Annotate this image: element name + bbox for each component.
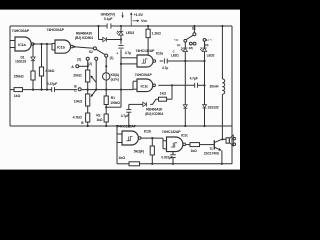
svg-text:(BJ) ICD504: (BJ) ICD504 (145, 112, 163, 116)
terminal B label lower (81, 121, 84, 125)
resistor R1 100k (104, 89, 120, 115)
svg-text:S1: S1 (192, 26, 196, 30)
svg-text:150kΩ: 150kΩ (14, 74, 24, 78)
wire feedback drop (171, 85, 173, 99)
schmitt nand gate IC2c (167, 133, 189, 151)
switch S2 arm (96, 49, 105, 54)
svg-text:1kΩ: 1kΩ (119, 156, 126, 160)
resistor 1k inline rail (14, 88, 23, 98)
svg-text:74HC00AP: 74HC00AP (135, 73, 153, 77)
capacitor 4.7uF vertical (116, 40, 131, 58)
svg-text:4.7kΩ: 4.7kΩ (73, 116, 82, 120)
terminal B C (74, 85, 81, 93)
led LED3 (117, 25, 135, 41)
wire emitter to rail (221, 150, 223, 165)
label 74HC00AP for IC1c (135, 73, 153, 77)
label 5kohm(F) (134, 149, 144, 153)
svg-text:1SS133: 1SS133 (207, 105, 218, 109)
resistor 4.7k (73, 113, 90, 127)
nand gate IC1c (137, 79, 155, 92)
wire reference rail y90 (10, 89, 133, 91)
schmitt nand gate IC2a (137, 52, 163, 67)
svg-text:1SS133: 1SS133 (15, 59, 26, 63)
svg-text:(±1%): (±1%) (111, 77, 119, 81)
svg-text:(BJ) ICD504: (BJ) ICD504 (75, 36, 93, 40)
svg-text:5kΩ(F): 5kΩ(F) (134, 149, 144, 153)
led LED1 (171, 42, 188, 61)
svg-text:T1: T1 (209, 147, 213, 151)
wire right frame border (231, 26, 233, 164)
ceramic resonator K5(A) (103, 73, 119, 96)
resistor 150k (14, 71, 36, 90)
capacitor 0.1uF label (104, 17, 114, 21)
capacitor 0.001uF (161, 152, 175, 165)
svg-text:GND(0V): GND(0V) (101, 13, 116, 17)
resistor R2 1k (96, 113, 108, 127)
wire coil to collector (221, 94, 223, 140)
svg-text:4.7μF: 4.7μF (190, 76, 198, 80)
svg-text:(M): (M) (189, 46, 193, 50)
svg-text:0.001μF: 0.001μF (161, 156, 173, 160)
label 74HC132AP for IC2c (162, 130, 182, 134)
wire contact3 column (87, 60, 89, 70)
svg-text:+1.5V: +1.5V (134, 13, 144, 17)
svg-text:IC1a: IC1a (18, 43, 27, 47)
svg-text:4.7μF: 4.7μF (121, 114, 129, 118)
label (BJ)ICD504 top (75, 36, 93, 40)
svg-text:B: B (81, 121, 84, 125)
wire IC1c output (158, 84, 173, 86)
svg-text:IC2b: IC2b (144, 129, 151, 133)
capacitor 4.7uF at IC2a output (160, 59, 169, 71)
switch S1 arm (186, 35, 193, 39)
resistor 1k feedback (159, 92, 173, 102)
wire IC1a output (33, 43, 52, 45)
svg-text:A: A (71, 65, 74, 69)
label 74HC132AP for IC2b (117, 125, 137, 129)
svg-text:(N): (N) (205, 43, 209, 47)
svg-text:RB466A30: RB466A30 (146, 108, 162, 112)
svg-text:1.2kΩ: 1.2kΩ (152, 32, 161, 36)
switch S2 contact (3) (77, 57, 89, 61)
wire IC1c input tie (133, 81, 137, 89)
resistor 1k at T1 base (190, 143, 214, 154)
wire bottom rail of lower section (117, 163, 232, 165)
svg-text:74HC132AP: 74HC132AP (136, 49, 156, 53)
wire IC2b output (141, 137, 163, 139)
label 74HC00AP for IC1b (47, 28, 65, 32)
wire IC2c output (186, 144, 190, 146)
resistor 5k pot column (150, 138, 154, 165)
wire R divider to IC2a input column (106, 90, 121, 108)
diode D1 1SS133 (15, 56, 35, 71)
svg-text:20kΩ: 20kΩ (73, 73, 82, 77)
svg-text:74HC00AP: 74HC00AP (12, 29, 30, 33)
wire left frame border (9, 26, 11, 126)
svg-text:S2: S2 (89, 50, 93, 54)
potentiometer 10k (74, 94, 90, 113)
switch S1 pole (192, 25, 196, 36)
switch S2 contact (1) (105, 54, 114, 60)
svg-text:1kΩ: 1kΩ (160, 92, 167, 96)
capacitor 0.47uF inline rail (47, 82, 57, 92)
svg-text:Vcc: Vcc (141, 19, 147, 23)
wire LED1 column with diode (183, 60, 187, 127)
svg-text:RB466A30: RB466A30 (76, 32, 92, 36)
potentiometer 20k (73, 70, 89, 94)
svg-text:H: H (206, 38, 208, 42)
top letterbox bar (0, 0, 240, 10)
svg-text:+: + (116, 51, 118, 55)
wire contact1 column (105, 57, 107, 73)
switch S1 left contact (173, 38, 186, 47)
label (BJ)ICD504 mid (145, 112, 163, 116)
svg-text:74HC00AP: 74HC00AP (47, 28, 65, 32)
svg-text:(1): (1) (110, 56, 114, 60)
label +1.5V with up arrow (130, 12, 144, 25)
wire to 4.7uF cap (129, 104, 141, 109)
wire IC2b inputs (117, 134, 122, 143)
svg-text:LED3: LED3 (126, 31, 134, 35)
resistor 1.2k (146, 25, 161, 55)
resistor 1k inline bottom rail (119, 156, 140, 166)
bottom letterbox bar (0, 170, 240, 180)
svg-text:LED1: LED1 (171, 53, 179, 57)
capacitor 4.7uF inline y85 (190, 76, 206, 87)
svg-text:2SC1740S: 2SC1740S (204, 151, 220, 155)
wire IC2a output rail y61 (167, 60, 205, 62)
svg-text:LED2: LED2 (207, 54, 215, 58)
svg-text:R1: R1 (111, 96, 115, 100)
switch S2 contact (2) (88, 57, 98, 66)
label 74HC00AP for IC1a (12, 29, 30, 33)
inductor 20mH (210, 79, 225, 94)
diode 1SS133 x204 (203, 61, 219, 127)
svg-text:100kΩ: 100kΩ (110, 101, 120, 105)
svg-text:4.7μ: 4.7μ (125, 51, 131, 55)
led LED2 (200, 41, 215, 61)
nand gate IC1b (55, 40, 73, 53)
wire top Vcc rail (10, 25, 232, 27)
diode on y40 wire (99, 37, 122, 41)
wire into IC1b (51, 43, 53, 45)
wire y85 right with cap (172, 84, 195, 86)
junction dots on ground rail (116, 125, 118, 127)
diode feedback (141, 99, 159, 106)
svg-text:(L): (L) (177, 43, 181, 47)
wire 3.3k branch column (41, 44, 43, 67)
svg-text:74HC132AP: 74HC132AP (162, 130, 182, 134)
terminal A (71, 65, 88, 69)
schmitt nand gate IC2b (122, 129, 151, 145)
switch S2 pole (89, 47, 97, 54)
svg-text:IC1c: IC1c (141, 84, 149, 88)
wire IC1b output to S2 pole (73, 46, 93, 49)
svg-text:4.7μ: 4.7μ (162, 66, 168, 70)
svg-text:(2): (2) (88, 62, 92, 66)
wire contact2 column (95, 60, 97, 89)
svg-text:⺀: ⺀ (209, 38, 212, 42)
svg-text:IC2a: IC2a (156, 52, 163, 56)
label Vcc with right arrow (133, 19, 148, 23)
svg-text:74HC132AP: 74HC132AP (117, 125, 137, 129)
svg-text:10kΩ: 10kΩ (74, 99, 83, 103)
resistor 3.3k (39, 67, 54, 90)
pot 10k wiper (91, 90, 97, 97)
speaker (222, 135, 235, 146)
wire 0.47uF branch column (46, 44, 48, 90)
nand gate IC1a (15, 37, 34, 51)
switch S1 middle contacts (189, 42, 196, 50)
wire middle ground rail (10, 125, 232, 127)
wire IC2c input tie (163, 138, 167, 149)
transistor T1 2SC1740S (204, 139, 222, 155)
capacitor C 0.1uF inline top rail (107, 23, 111, 28)
dots on reference rail (32, 89, 97, 91)
switch S1 right contact (203, 38, 212, 47)
wire D1 branch column (32, 44, 34, 57)
svg-text:IC1b: IC1b (57, 46, 66, 50)
wire IC1a inputs (10, 41, 15, 48)
svg-text:1kΩ: 1kΩ (14, 94, 21, 98)
svg-text:IC2c: IC2c (181, 133, 188, 137)
svg-text:20mH: 20mH (210, 85, 219, 89)
svg-text:0.1μF: 0.1μF (104, 17, 114, 21)
svg-text:R2: R2 (96, 113, 100, 117)
wire Vcc drop x98.5 (97, 25, 99, 40)
wire IC1b input tie (52, 44, 55, 51)
label RB466A30 mid (146, 108, 162, 112)
label RB466A30 top (76, 32, 92, 36)
wire lower-left border (116, 126, 118, 164)
svg-text:1kΩ: 1kΩ (96, 118, 102, 122)
svg-text:1kΩ: 1kΩ (191, 149, 198, 153)
svg-text:(3): (3) (77, 58, 81, 62)
wire IC2a inputs (120, 58, 137, 91)
pot 20k wiper (91, 76, 97, 83)
svg-text:⺀C: ⺀C (173, 38, 179, 42)
svg-text:0.47μF: 0.47μF (47, 82, 57, 86)
wire coil column top (221, 25, 223, 79)
label GND(0V) with down arrow (101, 12, 124, 17)
capacitor 4.7uF vertical to rail (121, 110, 132, 128)
label 74HC132AP for IC2a (136, 49, 156, 53)
